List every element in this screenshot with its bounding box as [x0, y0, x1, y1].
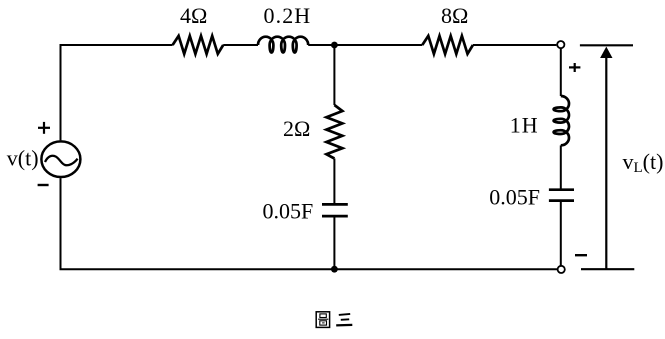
wire R3 to C1 [333, 159, 335, 205]
polarity + of output [569, 63, 580, 72]
vL(t) measurement arrow shaft [605, 56, 607, 269]
inductor L2 1H vertical [554, 96, 569, 145]
svg-text:vL(t): vL(t) [623, 149, 664, 176]
caption glyph tu (figure) [316, 312, 329, 328]
vL(t) measurement arrow top bar [580, 44, 633, 46]
voltage source V1 sine wave [45, 156, 78, 166]
svg-text:0.05F: 0.05F [489, 184, 540, 209]
caption glyph san (three) [336, 314, 352, 326]
wire top-left horizontal (source top to R1) [61, 44, 173, 46]
wire left vertical (top wire down to source) [60, 44, 62, 140]
polarity - of source [38, 184, 49, 186]
terminal top-right open circle [557, 41, 564, 48]
wire between L1 and node A [308, 44, 334, 46]
wire R2 to top-right terminal [473, 44, 557, 46]
capacitor C1 0.05F plates [322, 204, 348, 216]
wire top-right terminal down to L2 [560, 48, 562, 96]
svg-text:2Ω: 2Ω [283, 116, 310, 141]
capacitor C2 0.05F plates [549, 190, 574, 201]
resistor R3 2ohm vertical [326, 105, 342, 159]
wire node A to R2 [334, 44, 422, 46]
resistor R2 8ohm [422, 36, 473, 54]
svg-text:4Ω: 4Ω [180, 3, 207, 28]
svg-text:1H: 1H [510, 113, 539, 138]
wire L2 to C2 [560, 145, 562, 189]
vL(t) measurement arrow bottom bar [581, 268, 634, 270]
node A junction dot [331, 42, 338, 49]
polarity - of output [575, 254, 587, 256]
wire node B to bottom-right terminal [334, 268, 557, 270]
vL(t) measurement arrow head [600, 47, 612, 58]
wire C1 to node B [333, 216, 335, 269]
wire left vertical (source to bottom wire) + bottom wire to node B [61, 178, 335, 269]
voltage source V1 circle [41, 141, 80, 177]
svg-text:8Ω: 8Ω [441, 3, 468, 28]
wire node A down to R3 [333, 45, 335, 105]
node B junction dot [331, 266, 338, 273]
wire between R1 and L1 [223, 44, 258, 46]
wire C2 down to bottom-right terminal [560, 201, 562, 266]
resistor R1 4ohm [173, 36, 224, 54]
svg-text:0.05F: 0.05F [263, 199, 314, 224]
terminal bottom-right open circle [558, 266, 565, 273]
svg-text:0.2H: 0.2H [264, 3, 312, 28]
inductor L1 0.2H [258, 37, 308, 53]
svg-text:v(t): v(t) [7, 146, 39, 171]
polarity + of source [38, 122, 50, 134]
